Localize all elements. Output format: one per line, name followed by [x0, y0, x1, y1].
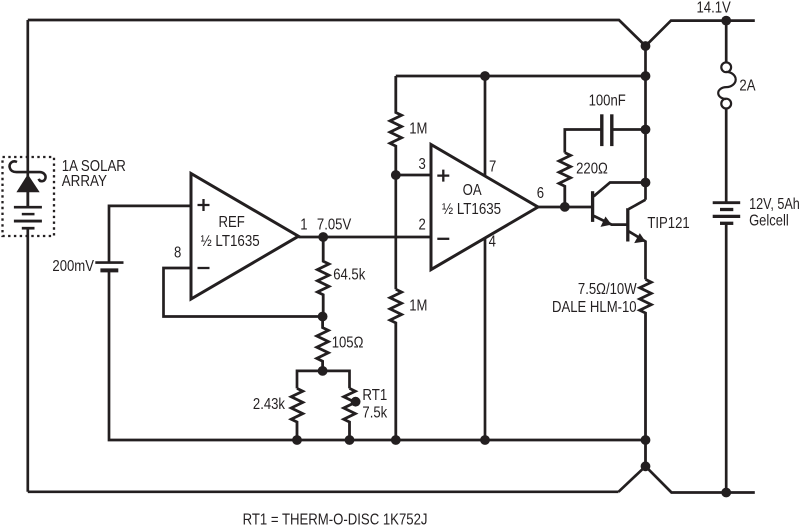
svg-text:7.05V: 7.05V — [317, 217, 352, 234]
svg-text:200mV: 200mV — [52, 258, 94, 275]
wire bottom outer rail — [28, 490, 619, 493]
svg-text:7.5Ω/10W: 7.5Ω/10W — [578, 281, 637, 298]
node rail1 2.43k — [292, 435, 302, 445]
op-amp REF plus sign — [198, 199, 210, 211]
svg-text:OA: OA — [463, 182, 482, 199]
wire fuse to battery — [725, 108, 728, 203]
solar array diode triangle — [16, 174, 39, 192]
solar array dashed box — [3, 157, 55, 236]
svg-text:7.5k: 7.5k — [362, 405, 388, 422]
node OA supply rail / main vertical — [641, 71, 651, 81]
wire main vertical from top dip junction down to transistor collectors — [644, 46, 647, 200]
resistor 2.43k — [291, 388, 303, 439]
wire 220ohm top corner to cap left — [565, 130, 602, 153]
node RT1 wiper dot — [351, 397, 361, 407]
svg-text:64.5k: 64.5k — [333, 267, 366, 284]
svg-text:1M: 1M — [409, 121, 427, 138]
svg-text:ARRAY: ARRAY — [62, 173, 107, 190]
svg-text:2: 2 — [419, 217, 426, 234]
node rail1 1M — [391, 435, 401, 445]
wire bottom rail left diagonal up to junction — [619, 466, 646, 492]
thermistor RT1 7.5k — [344, 388, 356, 439]
solar array curl (diode bar with hooks) — [10, 161, 46, 181]
solar array internal wire triangle to plates — [26, 192, 29, 207]
node 105ohm bottom split — [318, 366, 328, 376]
battery 12V plate short 2 — [720, 222, 733, 225]
node collector tee — [641, 178, 651, 188]
fuse 2A squiggle — [718, 72, 736, 99]
svg-text:RT1: RT1 — [362, 387, 387, 404]
svg-text:1M: 1M — [409, 298, 427, 315]
svg-text:12V, 5Ah: 12V, 5Ah — [749, 196, 800, 213]
svg-text:220Ω: 220Ω — [576, 161, 608, 178]
solar array plate long bottom — [14, 220, 42, 223]
wire bottom rail right diagonal down from junction — [646, 466, 755, 492]
node 14.1V junction — [721, 16, 731, 26]
wire battery to bottom rail — [725, 223, 728, 492]
transistor Q2 emitter — [629, 231, 646, 279]
resistor 105ohm — [317, 317, 329, 371]
resistor 1M lower — [390, 289, 402, 439]
transistor Q2 base bar — [626, 208, 629, 241]
svg-text:8: 8 — [174, 245, 181, 262]
wire cap right plate to main vertical — [612, 128, 646, 131]
transistor Q2 collector — [629, 200, 646, 209]
svg-text:½ LT1635: ½ LT1635 — [201, 233, 260, 250]
battery 12V plate long 2 — [713, 215, 741, 218]
transistor Q2 emitter arrow — [634, 233, 645, 243]
node top dip junction — [641, 41, 651, 51]
solar array plate short bottom — [22, 227, 35, 230]
wire 200mV to bottom rail 1 — [109, 270, 646, 440]
node 7.05V output tee — [318, 232, 328, 242]
resistor 220ohm — [559, 153, 571, 207]
fuse 2A top circle — [721, 62, 731, 72]
wire REF output to OA inverting input — [299, 236, 432, 239]
wire left rail lower (solar array bottom plate to bottom-left corner) — [26, 228, 29, 492]
wire REF noninverting input from 200mV branch — [109, 206, 191, 263]
svg-text:100nF: 100nF — [589, 92, 626, 109]
wire 14.1V node to fuse — [725, 21, 728, 63]
svg-text:½ LT1635: ½ LT1635 — [442, 201, 501, 218]
node rail1 pin4 — [480, 435, 490, 445]
op-amp REF triangle — [191, 174, 299, 300]
node pin3 divider tap — [391, 170, 401, 180]
battery 12V plate short 1 — [720, 208, 733, 211]
node rail1 RT1 — [345, 435, 355, 445]
battery 200mV plate long — [95, 261, 123, 264]
wire split below 105ohm — [297, 371, 350, 389]
svg-text:Gelcell: Gelcell — [749, 213, 789, 230]
capacitor 100nF right plate — [610, 114, 613, 146]
wire pin 3 to OA noninverting input — [396, 174, 431, 177]
node rail1 main vertical tee — [641, 435, 651, 445]
resistor 7.5ohm 10W — [640, 279, 652, 466]
svg-text:REF: REF — [219, 214, 245, 231]
transistor Q1 collector — [594, 183, 646, 197]
resistor 1M upper — [390, 76, 402, 175]
wire OA top supply rail — [396, 75, 646, 78]
svg-text:6: 6 — [537, 185, 544, 202]
node output 220ohm tee — [560, 202, 570, 212]
svg-text:4: 4 — [489, 233, 496, 250]
wire OA output to transistor base — [538, 206, 593, 209]
svg-text:3: 3 — [419, 156, 426, 173]
battery 12V plate long 1 — [713, 201, 741, 204]
svg-text:DALE HLM-10: DALE HLM-10 — [552, 299, 637, 316]
svg-text:1: 1 — [300, 217, 307, 234]
solar array plate short — [22, 213, 35, 216]
node pin7 tee — [480, 71, 490, 81]
node feedback 64.5k tee — [318, 312, 328, 322]
svg-text:14.1V: 14.1V — [697, 0, 732, 17]
capacitor 100nF left plate — [600, 114, 603, 146]
transistor Q1 emitter arrow — [601, 217, 612, 227]
wire top rail dip up to 14.1V node and right stub — [646, 21, 755, 46]
wire 1M divider middle — [394, 175, 397, 289]
svg-text:2A: 2A — [739, 78, 755, 95]
wire OA pin 7 supply — [484, 76, 487, 176]
svg-text:105Ω: 105Ω — [332, 335, 364, 352]
wire top rail from top-left corner to dip — [28, 20, 646, 46]
svg-text:7: 7 — [489, 158, 496, 175]
wire OA pin 4 to bottom rail 1 — [484, 238, 487, 440]
transistor Q1 emitter — [594, 216, 628, 225]
svg-text:2.43k: 2.43k — [253, 396, 286, 413]
resistor 64.5k — [317, 237, 329, 317]
solar array plate long top — [14, 206, 42, 209]
op-amp OA triangle — [431, 145, 538, 270]
svg-text:RT1 = THERM-O-DISC 1K752J: RT1 = THERM-O-DISC 1K752J — [243, 512, 428, 528]
battery 200mV plate short thick — [100, 268, 118, 272]
wire left rail upper (through solar array to top plate) — [26, 20, 29, 207]
svg-text:TIP121: TIP121 — [647, 215, 689, 232]
op-amp OA minus sign — [437, 238, 449, 240]
transistor Q1 base bar — [591, 191, 594, 222]
op-amp OA plus sign — [437, 170, 449, 182]
fuse 2A bottom circle — [721, 99, 731, 109]
op-amp REF minus sign — [198, 267, 210, 269]
node cap tee — [641, 125, 651, 135]
wire REF inverting feedback — [164, 268, 323, 317]
node bottom diagonal junction — [641, 461, 651, 471]
node battery bottom rail — [721, 488, 731, 498]
